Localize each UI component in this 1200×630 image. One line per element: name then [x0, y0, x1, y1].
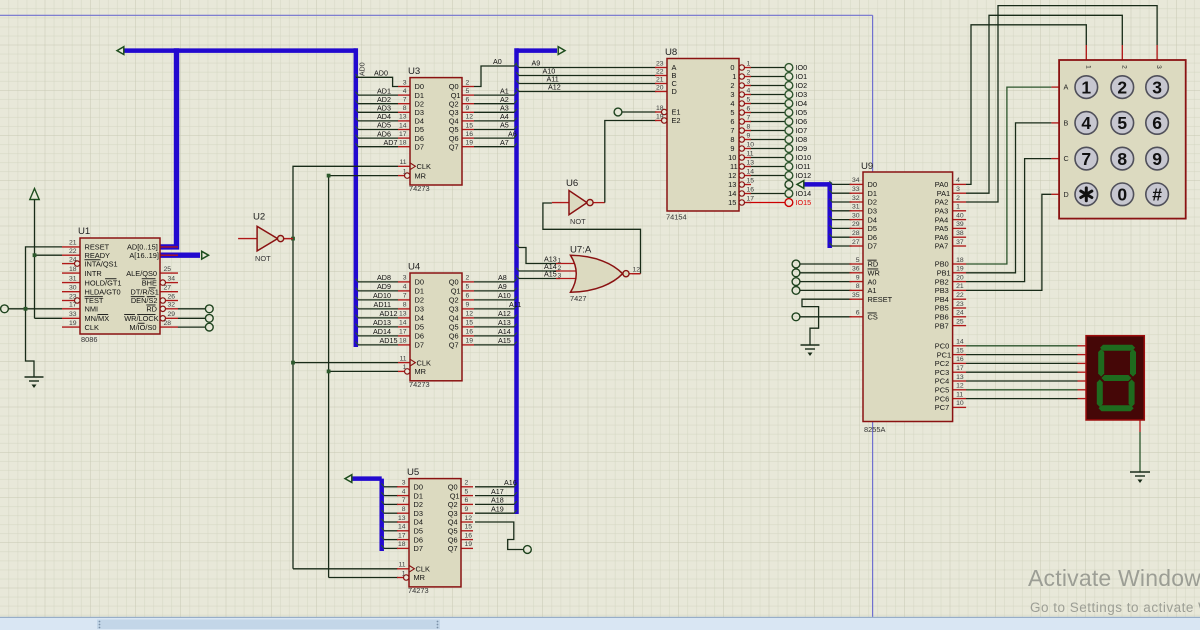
svg-text:Q2: Q2	[448, 500, 458, 509]
svg-text:12: 12	[956, 383, 964, 390]
svg-text:INTR: INTR	[85, 269, 102, 278]
svg-text:#: #	[1152, 185, 1162, 205]
svg-text:6: 6	[1152, 113, 1162, 133]
svg-text:Q1: Q1	[451, 287, 461, 296]
svg-text:13: 13	[399, 311, 407, 318]
svg-text:A0: A0	[868, 277, 877, 286]
bottom scrollbar	[0, 617, 1200, 630]
svg-text:19: 19	[465, 541, 473, 548]
svg-text:17: 17	[399, 329, 407, 336]
svg-text:13: 13	[398, 515, 406, 522]
svg-text:8: 8	[403, 302, 407, 309]
svg-text:40: 40	[956, 212, 964, 219]
svg-text:INTA/QS1: INTA/QS1	[85, 259, 118, 268]
svg-text:17: 17	[399, 131, 407, 138]
svg-text:D: D	[672, 87, 677, 96]
svg-text:4: 4	[1081, 113, 1091, 133]
svg-text:74273: 74273	[409, 380, 430, 389]
svg-text:HOLD/GT1: HOLD/GT1	[85, 278, 122, 287]
wire PA2 to keypad col3	[966, 6, 1157, 202]
svg-text:A12: A12	[498, 309, 511, 318]
svg-text:11: 11	[747, 150, 754, 157]
svg-text:Q6: Q6	[449, 332, 459, 341]
svg-text:AD10: AD10	[373, 291, 391, 300]
wires AD8..AD15 from bus to U4	[356, 279, 399, 345]
svg-text:2: 2	[466, 275, 470, 282]
svg-text:PA3: PA3	[935, 206, 948, 215]
bus U9 data with left arrow	[797, 181, 830, 249]
svg-text:3: 3	[747, 78, 751, 85]
svg-text:D1: D1	[415, 287, 424, 296]
svg-text:D2: D2	[414, 500, 423, 509]
svg-text:PA7: PA7	[935, 242, 948, 251]
svg-text:25: 25	[956, 318, 964, 325]
svg-text:PC4: PC4	[935, 377, 949, 386]
svg-text:2: 2	[1117, 77, 1127, 97]
svg-text:Activate Windows: Activate Windows	[1028, 565, 1200, 591]
svg-text:Q4: Q4	[449, 314, 459, 323]
svg-text:14: 14	[728, 189, 736, 198]
svg-text:PC6: PC6	[935, 394, 949, 403]
svg-text:AD14: AD14	[373, 327, 391, 336]
wires bus to U5 D0..D7	[381, 484, 398, 549]
svg-text:A11: A11	[509, 300, 521, 309]
svg-text:26: 26	[168, 293, 176, 300]
wires A16..A19 from U5 to bus	[475, 484, 517, 514]
net labels AD8..AD15	[373, 273, 397, 345]
svg-text:18: 18	[398, 541, 406, 548]
svg-text:11: 11	[399, 159, 406, 166]
svg-text:RD: RD	[146, 304, 157, 313]
wire U7 output to U6 input	[543, 203, 641, 274]
wire RD to terminal	[178, 305, 213, 313]
svg-text:19: 19	[956, 266, 964, 273]
svg-text:15: 15	[466, 320, 474, 327]
svg-text:16: 16	[465, 532, 473, 539]
svg-text:5: 5	[465, 488, 469, 495]
svg-text:5: 5	[747, 96, 751, 103]
svg-text:13: 13	[956, 374, 964, 381]
svg-text:BHE: BHE	[142, 278, 157, 287]
svg-text:16: 16	[466, 329, 474, 336]
svg-text:17: 17	[956, 365, 964, 372]
svg-text:Q2: Q2	[449, 296, 459, 305]
wire A15 bus to U7 pin3	[516, 275, 560, 278]
svg-text:A10: A10	[498, 291, 511, 300]
svg-text:A14: A14	[498, 327, 511, 336]
svg-text:12: 12	[466, 114, 474, 121]
net labels A8..A15	[498, 273, 521, 345]
svg-text:3: 3	[956, 186, 960, 193]
svg-text:27: 27	[852, 239, 860, 246]
svg-text:A8: A8	[498, 273, 507, 282]
svg-text:AD12: AD12	[380, 309, 398, 318]
net labels IO0..IO15	[796, 63, 812, 207]
svg-text:CS: CS	[868, 312, 878, 321]
svg-text:7: 7	[403, 293, 407, 300]
inverter U2 NOT	[238, 212, 293, 264]
svg-text:Q6: Q6	[448, 535, 458, 544]
svg-text:NOT: NOT	[255, 254, 271, 263]
svg-text:11: 11	[398, 562, 405, 569]
svg-text:30: 30	[69, 285, 77, 292]
sheet border	[0, 15, 873, 617]
svg-text:17: 17	[747, 195, 755, 202]
svg-text:1: 1	[403, 168, 407, 175]
svg-text:D0: D0	[414, 482, 423, 491]
svg-text:9: 9	[465, 506, 469, 513]
svg-text:13: 13	[399, 114, 407, 121]
svg-text:PA5: PA5	[935, 224, 948, 233]
svg-text:7: 7	[403, 97, 407, 104]
svg-text:A17: A17	[491, 487, 504, 496]
svg-text:NOT: NOT	[570, 217, 586, 226]
svg-text:4: 4	[956, 177, 960, 184]
svg-text:13: 13	[747, 159, 755, 166]
net labels A16..A19	[491, 478, 517, 514]
svg-text:5: 5	[466, 88, 470, 95]
svg-text:AD13: AD13	[373, 318, 391, 327]
svg-text:8: 8	[1117, 149, 1127, 169]
svg-text:PC1: PC1	[937, 350, 951, 359]
svg-text:AD0: AD0	[374, 69, 388, 78]
svg-text:22: 22	[656, 68, 664, 75]
svg-text:PB2: PB2	[935, 277, 949, 286]
svg-text:8255A: 8255A	[864, 425, 885, 434]
svg-text:D2: D2	[415, 296, 424, 305]
svg-text:2: 2	[466, 79, 470, 86]
svg-text:19: 19	[69, 320, 77, 327]
chip U8 74154	[655, 47, 754, 222]
net labels A13 A14 A15 and pin numbers U7	[544, 255, 640, 280]
svg-text:2: 2	[747, 69, 751, 76]
svg-text:9: 9	[747, 132, 751, 139]
svg-text:15: 15	[466, 122, 474, 129]
svg-text:IO2: IO2	[796, 81, 808, 90]
svg-text:IO6: IO6	[796, 117, 808, 126]
svg-text:Q0: Q0	[448, 482, 458, 491]
svg-text:3: 3	[403, 79, 407, 86]
svg-text:6: 6	[730, 117, 734, 126]
svg-text:A9: A9	[532, 58, 541, 67]
svg-text:21: 21	[956, 283, 964, 290]
svg-text:5: 5	[466, 284, 470, 291]
nor gate U7:A 7427	[556, 245, 641, 304]
svg-text:IO15: IO15	[796, 198, 812, 207]
svg-text:0: 0	[730, 63, 734, 72]
svg-text:HLDA/GT0: HLDA/GT0	[85, 287, 121, 296]
svg-text:RD: RD	[868, 260, 879, 269]
wire A14 bus to U7 pin2	[516, 268, 560, 271]
svg-text:A[16..19]: A[16..19]	[129, 251, 159, 260]
svg-text:16: 16	[466, 131, 474, 138]
svg-text:PB6: PB6	[935, 312, 949, 321]
svg-text:8: 8	[747, 123, 751, 130]
svg-text:Q4: Q4	[448, 518, 458, 527]
svg-text:11: 11	[956, 391, 963, 398]
svg-text:5: 5	[856, 257, 860, 264]
svg-text:10: 10	[747, 141, 755, 148]
svg-text:24: 24	[69, 256, 77, 263]
svg-text:24: 24	[956, 310, 964, 317]
svg-text:14: 14	[747, 168, 755, 175]
svg-text:A1: A1	[868, 286, 877, 295]
svg-text:30: 30	[852, 212, 860, 219]
svg-text:A0: A0	[493, 57, 502, 66]
svg-text:17: 17	[398, 532, 406, 539]
svg-text:D1: D1	[414, 491, 423, 500]
svg-text:PB5: PB5	[935, 304, 949, 313]
wires AD0..AD7 from bus to U3	[356, 74, 399, 147]
wire PA1 to keypad col2	[966, 15, 1122, 193]
svg-text:19: 19	[466, 338, 474, 345]
svg-text:74154: 74154	[666, 213, 687, 222]
svg-text:C: C	[1064, 154, 1069, 163]
svg-text:Q7: Q7	[449, 142, 459, 151]
svg-text:AD8: AD8	[377, 273, 391, 282]
svg-text:6: 6	[466, 97, 470, 104]
svg-text:Q0: Q0	[449, 278, 459, 287]
svg-text:36: 36	[852, 266, 860, 273]
svg-text:PA6: PA6	[935, 233, 948, 242]
svg-text:U3: U3	[408, 66, 420, 77]
svg-text:D7: D7	[415, 142, 424, 151]
wire PB3 to keypad row D	[966, 194, 1051, 290]
svg-text:9: 9	[466, 302, 470, 309]
svg-text:74273: 74273	[409, 184, 430, 193]
svg-text:33: 33	[69, 311, 77, 318]
svg-text:D4: D4	[868, 215, 877, 224]
svg-text:18: 18	[399, 338, 407, 345]
svg-text:31: 31	[69, 275, 77, 282]
svg-text:15: 15	[956, 347, 964, 354]
svg-text:PB7: PB7	[935, 321, 949, 330]
svg-text:1: 1	[402, 570, 406, 577]
svg-text:PC3: PC3	[935, 368, 949, 377]
svg-text:U6: U6	[566, 178, 578, 189]
svg-text:WR: WR	[868, 268, 880, 277]
activate windows watermark	[1028, 565, 1200, 615]
svg-text:D2: D2	[868, 198, 877, 207]
svg-text:IO9: IO9	[796, 144, 808, 153]
svg-text:A7: A7	[500, 138, 509, 147]
svg-text:8: 8	[730, 135, 734, 144]
svg-text:PB4: PB4	[935, 295, 949, 304]
wires A8..A15 from U4 to bus	[474, 279, 517, 345]
svg-text:15: 15	[747, 177, 755, 184]
svg-text:U8: U8	[665, 47, 677, 58]
svg-text:A6: A6	[508, 129, 517, 138]
svg-text:A9: A9	[498, 282, 507, 291]
bus U5 D inputs with left arrow	[345, 475, 382, 551]
svg-text:D4: D4	[415, 314, 424, 323]
svg-text:IO5: IO5	[796, 108, 808, 117]
svg-text:D7: D7	[415, 341, 424, 350]
svg-text:13: 13	[728, 180, 736, 189]
svg-text:CLK: CLK	[416, 564, 430, 573]
svg-text:74273: 74273	[408, 586, 429, 595]
wires A0..A7 from U3 to bus	[474, 63, 517, 147]
wires U8 outputs to IO terminals	[750, 64, 793, 207]
svg-text:9: 9	[1152, 149, 1162, 169]
power symbol VCC	[30, 189, 39, 319]
svg-text:22: 22	[69, 248, 77, 255]
svg-text:28: 28	[852, 230, 860, 237]
svg-text:D5: D5	[868, 224, 877, 233]
svg-text:AD0: AD0	[360, 62, 367, 76]
svg-text:AD7: AD7	[384, 138, 398, 147]
svg-text:PA4: PA4	[935, 215, 948, 224]
chip U4 74273	[398, 262, 474, 389]
svg-text:18: 18	[399, 140, 407, 147]
wire 7-seg common to ground	[1139, 420, 1141, 472]
svg-text:18: 18	[69, 266, 77, 273]
wire MR net U3/U4/U5	[327, 174, 398, 578]
wire READY to VCC	[33, 253, 62, 257]
ground symbol U9	[801, 345, 820, 356]
ground symbol left	[25, 377, 44, 388]
svg-text:15: 15	[728, 198, 736, 207]
svg-text:21: 21	[656, 76, 664, 83]
svg-text:A19: A19	[491, 504, 504, 513]
svg-text:16: 16	[747, 186, 755, 193]
svg-text:3: 3	[402, 480, 406, 487]
svg-text:Q7: Q7	[449, 341, 459, 350]
svg-text:23: 23	[956, 301, 964, 308]
svg-text:NMI: NMI	[85, 304, 99, 313]
svg-text:MR: MR	[415, 367, 427, 376]
svg-text:A15: A15	[544, 270, 557, 279]
svg-text:3: 3	[1152, 77, 1162, 97]
svg-text:Go to Settings to activate Win: Go to Settings to activate Windows.	[1030, 600, 1200, 615]
svg-text:IO10: IO10	[796, 153, 812, 162]
svg-text:3: 3	[403, 275, 407, 282]
svg-text:15: 15	[465, 524, 473, 531]
svg-text:1: 1	[403, 364, 407, 371]
svg-text:MN/MX: MN/MX	[85, 314, 110, 323]
svg-text:14: 14	[399, 320, 407, 327]
svg-text:8086: 8086	[81, 335, 97, 344]
svg-text:9: 9	[730, 144, 734, 153]
svg-text:29: 29	[168, 311, 176, 318]
svg-text:9: 9	[856, 274, 860, 281]
svg-text:A16: A16	[504, 478, 517, 487]
chip U9 8255A	[850, 161, 967, 434]
svg-text:MR: MR	[415, 171, 427, 180]
svg-text:PC0: PC0	[935, 341, 949, 350]
svg-text:U9: U9	[861, 161, 873, 172]
wires U9 D0..D7 to bus	[829, 181, 851, 246]
svg-text:10: 10	[956, 400, 964, 407]
svg-text:22: 22	[956, 292, 964, 299]
svg-text:4: 4	[747, 87, 751, 94]
svg-text:D7: D7	[414, 544, 423, 553]
svg-text:34: 34	[168, 275, 176, 282]
svg-text:IO12: IO12	[796, 171, 812, 180]
svg-text:Q7: Q7	[448, 544, 458, 553]
ground symbol 7-seg	[1130, 472, 1150, 483]
svg-text:4: 4	[402, 488, 406, 495]
svg-text:17: 17	[69, 302, 77, 309]
net labels AD0..AD7	[374, 69, 397, 147]
svg-text:U4: U4	[408, 262, 421, 273]
svg-text:8: 8	[856, 283, 860, 290]
svg-text:PA0: PA0	[935, 180, 948, 189]
svg-text:12: 12	[466, 311, 474, 318]
svg-text:PC2: PC2	[935, 359, 949, 368]
svg-text:16: 16	[956, 356, 964, 363]
svg-text:5: 5	[730, 108, 734, 117]
terminals RD WR A0 A1	[792, 260, 851, 294]
svg-text:IO4: IO4	[796, 99, 808, 108]
svg-text:Q3: Q3	[449, 305, 459, 314]
svg-text:CLK: CLK	[417, 162, 431, 171]
svg-text:39: 39	[956, 221, 964, 228]
svg-text:A18: A18	[491, 496, 504, 505]
svg-text:PC7: PC7	[935, 403, 949, 412]
svg-text:Q3: Q3	[448, 509, 458, 518]
svg-text:7: 7	[747, 114, 751, 121]
svg-text:20: 20	[656, 84, 664, 91]
svg-text:23: 23	[69, 293, 77, 300]
svg-text:1: 1	[956, 204, 960, 211]
svg-text:D4: D4	[414, 518, 423, 527]
svg-text:3: 3	[1155, 65, 1162, 69]
svg-text:IO0: IO0	[796, 63, 808, 72]
svg-text:M/IO/S0: M/IO/S0	[129, 323, 156, 332]
svg-text:23: 23	[656, 60, 664, 67]
terminal CS	[792, 313, 851, 321]
svg-text:2: 2	[956, 195, 960, 202]
svg-text:7427: 7427	[570, 294, 586, 303]
svg-text:1: 1	[747, 60, 751, 67]
svg-text:25: 25	[164, 266, 172, 273]
svg-text:U5: U5	[407, 467, 419, 478]
svg-text:PC5: PC5	[935, 385, 949, 394]
svg-text:10: 10	[728, 153, 736, 162]
svg-text:6: 6	[856, 310, 860, 317]
svg-text:U1: U1	[78, 226, 90, 237]
wire PB0 to keypad row A	[966, 87, 1051, 264]
svg-text:12: 12	[465, 515, 473, 522]
svg-text:D0: D0	[868, 180, 877, 189]
chip U1 8086	[62, 226, 178, 344]
svg-text:1: 1	[1084, 65, 1091, 69]
svg-text:E2: E2	[672, 116, 681, 125]
svg-text:PB1: PB1	[937, 268, 951, 277]
svg-text:CLK: CLK	[85, 323, 99, 332]
net labels A0..A7	[493, 57, 517, 147]
svg-text:RESET: RESET	[868, 295, 893, 304]
svg-text:PA1: PA1	[937, 189, 950, 198]
svg-text:IO14: IO14	[796, 189, 812, 198]
svg-text:18: 18	[656, 105, 664, 112]
svg-text:D5: D5	[414, 526, 423, 535]
svg-text:CLK: CLK	[417, 358, 431, 367]
svg-text:Q1: Q1	[450, 491, 460, 500]
svg-text:2: 2	[465, 480, 469, 487]
wire A13 bus to U7 pin1	[516, 244, 560, 263]
svg-text:IO3: IO3	[796, 90, 808, 99]
svg-text:20: 20	[956, 274, 964, 281]
wire CLK net U2 out to U3/U4/U5	[291, 166, 398, 569]
svg-text:U2: U2	[253, 212, 265, 223]
svg-text:IO7: IO7	[796, 126, 808, 135]
wires PC0..PC6 to 7-seg display	[966, 346, 1078, 399]
wire RESET to ground	[802, 299, 852, 345]
svg-text:6: 6	[466, 293, 470, 300]
svg-text:5: 5	[1117, 113, 1127, 133]
